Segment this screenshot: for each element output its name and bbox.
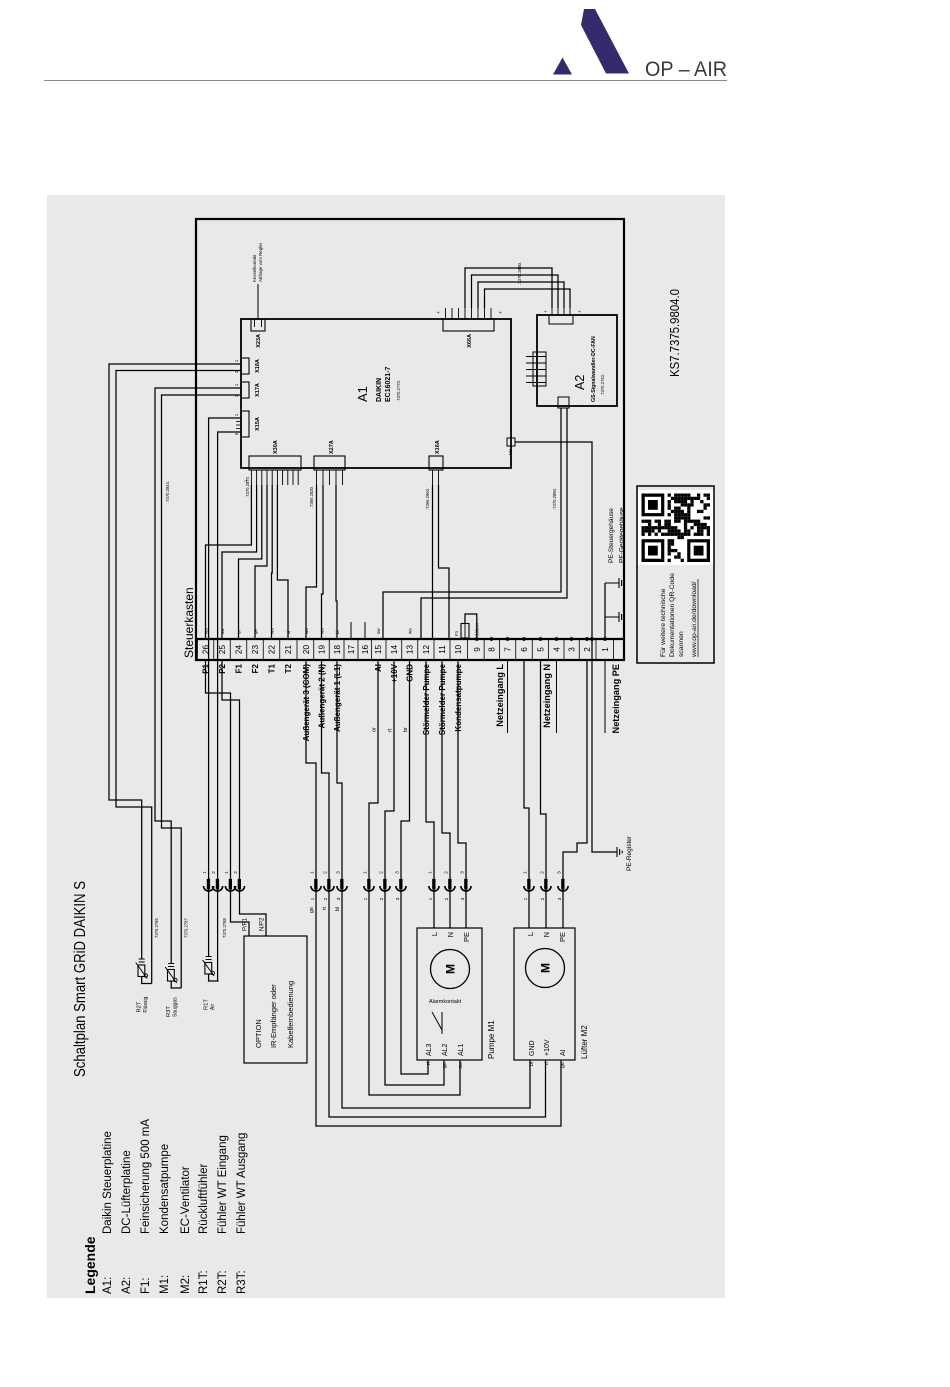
svg-text:.7370.2844.: .7370.2844. (165, 481, 170, 503)
svg-text:R1T: R1T (204, 999, 210, 1010)
gray schematic panel (47, 195, 725, 1298)
svg-text:Schaltplan Smart GRiD DAIKIN S: Schaltplan Smart GRiD DAIKIN S (72, 881, 89, 1077)
svg-text:8: 8 (488, 647, 497, 652)
svg-text:Steuerkasten: Steuerkasten (182, 587, 196, 658)
svg-text:Lüfter M2: Lüfter M2 (580, 1025, 589, 1059)
plug contact M2 L (527, 879, 530, 890)
sensor R3T (168, 966, 174, 968)
wire X18A pin3 to R2T (116, 371, 241, 984)
wires X27A to terminals 20,19,18 (306, 485, 317, 639)
mains input stub PE (604, 660, 606, 733)
plug contact OPTION N (238, 879, 241, 890)
wires Alarmkontakt AL1/AL2/AL3 to terminals 15,14,13 (369, 660, 460, 1095)
wire X17A pin1 to R3T (155, 388, 241, 964)
svg-text:sw: sw (376, 628, 381, 634)
svg-text:OPTION: OPTION (254, 1019, 263, 1048)
svg-text:Sauggas: Sauggas (173, 997, 179, 1017)
plug contact M2 ctrl 2 (327, 879, 330, 890)
svg-text:Netzeingang L: Netzeingang L (495, 664, 505, 727)
OP-AIR logo big stroke (581, 9, 629, 74)
svg-text:DAIKIN: DAIKIN (376, 378, 383, 402)
svg-text:www.op-air.de/download/: www.op-air.de/download/ (691, 581, 698, 658)
svg-text:2: 2 (443, 871, 449, 874)
svg-text:1: 1 (427, 871, 433, 874)
svg-text:N: N (446, 932, 455, 937)
svg-text:+: + (498, 311, 504, 314)
terminal strip inner rail (196, 638, 624, 640)
svg-text:GS-Signalwandler-DC-FAN: GS-Signalwandler-DC-FAN (591, 336, 597, 402)
svg-text:X18A: X18A (255, 359, 261, 373)
svg-text:2: 2 (583, 647, 592, 652)
wire OPTION N/P2 to terminal 25 (222, 660, 266, 936)
svg-text:14: 14 (390, 645, 399, 655)
svg-text:L: L (430, 932, 439, 936)
svg-text:Pumpe M1: Pumpe M1 (487, 1020, 496, 1059)
sensor R1T (206, 959, 212, 961)
svg-text:X27A: X27A (329, 440, 335, 454)
svg-text:ge: ge (309, 907, 315, 913)
svg-text:X15A: X15A (255, 417, 261, 431)
svg-text:.7370.2770.: .7370.2770. (396, 380, 401, 402)
svg-text:Abfrage vom Regler: Abfrage vom Regler (258, 242, 263, 282)
svg-text:Daikin Steuerplatine: Daikin Steuerplatine (102, 1131, 114, 1234)
svg-text:3: 3 (557, 897, 563, 900)
svg-text:AL2: AL2 (442, 1043, 449, 1056)
svg-text:M2:: M2: (180, 1275, 192, 1294)
wires X16A to terminals 12,11 (432, 485, 434, 639)
connector X16A (429, 456, 443, 470)
svg-text:15: 15 (374, 645, 383, 655)
svg-text:Dokumentationen QR-Code: Dokumentationen QR-Code (669, 573, 676, 657)
svg-text:.7366.2830.: .7366.2830. (309, 486, 314, 508)
svg-text:PE: PE (558, 932, 567, 942)
svg-text:rt: rt (388, 728, 394, 732)
svg-text:2: 2 (378, 871, 384, 874)
svg-text:Legende: Legende (82, 1236, 98, 1294)
svg-text:bl: bl (335, 907, 341, 911)
svg-text:sw: sw (458, 1062, 464, 1069)
svg-text:1: 1 (601, 647, 610, 652)
svg-text:7370.2786: 7370.2786 (154, 918, 159, 938)
svg-text:22: 22 (268, 645, 277, 655)
wires M2 L/N/PE to mains terminals (524, 660, 529, 928)
terminal strip cell dividers (197, 639, 199, 660)
wire to Kesselkontakt note (257, 284, 259, 319)
svg-text:+: + (543, 310, 548, 313)
svg-text:3: 3 (568, 647, 577, 652)
svg-text:Feinsicherung 500 mA: Feinsicherung 500 mA (140, 1119, 152, 1234)
svg-text:rt: rt (322, 907, 328, 911)
svg-text:Rückluftfühler: Rückluftfühler (198, 1164, 210, 1234)
motor M2 (526, 949, 565, 988)
svg-text:20: 20 (302, 645, 311, 655)
svg-text:rt: rt (426, 1062, 432, 1066)
svg-text:1: 1 (309, 871, 315, 874)
svg-text:Für weitere technische: Für weitere technische (660, 588, 667, 657)
plug contact OPTION P (229, 879, 232, 890)
svg-text:.7370.2870.: .7370.2870. (245, 476, 250, 498)
A2 top connector (533, 352, 546, 386)
svg-text:N: N (542, 932, 551, 937)
svg-text:F1: F1 (454, 630, 459, 636)
svg-text:Kabelfernbedienung: Kabelfernbedienung (286, 981, 295, 1048)
svg-text:PE: PE (462, 932, 471, 942)
svg-text:13: 13 (406, 645, 415, 655)
connector X27A (314, 456, 345, 470)
NC contact on A1 (507, 438, 515, 446)
svg-text:21: 21 (284, 645, 293, 655)
plug contact M1 N (448, 879, 451, 890)
connector X18A (241, 358, 249, 374)
svg-text:.7370.2740.: .7370.2740. (600, 374, 605, 396)
svg-text:A2: A2 (573, 375, 587, 390)
header rule (44, 80, 727, 82)
ground PE-Geraetegehaeuse (619, 578, 624, 588)
plug contact R1T-1 (207, 879, 210, 890)
svg-text:A2:: A2: (121, 1277, 133, 1294)
svg-text:R2T:: R2T: (217, 1270, 229, 1294)
svg-text:R3T: R3T (166, 1006, 172, 1017)
svg-text:3: 3 (459, 871, 465, 874)
info box with QR code (637, 486, 714, 663)
svg-text:Fühler WT Ausgang: Fühler WT Ausgang (236, 1133, 248, 1234)
svg-text:br: br (403, 727, 409, 732)
svg-text:3: 3 (394, 871, 400, 874)
svg-text:F1: F1 (235, 663, 244, 673)
svg-text:X17A: X17A (255, 383, 261, 397)
svg-text:17: 17 (347, 645, 356, 655)
plug contact M2 ctrl 1 (314, 879, 317, 890)
svg-text:23: 23 (251, 645, 260, 655)
svg-text:3: 3 (460, 897, 466, 900)
svg-text:PE-Gerätegehäuse: PE-Gerätegehäuse (619, 507, 626, 563)
svg-text:4: 4 (553, 647, 562, 652)
svg-text:6: 6 (520, 647, 529, 652)
A2 left connector (558, 397, 569, 408)
svg-text:1: 1 (428, 897, 434, 900)
svg-text:18: 18 (333, 645, 342, 655)
A1 Daikin control board (241, 319, 511, 468)
svg-text:X23A: X23A (256, 334, 262, 348)
A2 output wires to strip (383, 408, 561, 639)
svg-text:AL1: AL1 (458, 1043, 465, 1056)
wires X30A to terminals P1..T2 (206, 485, 252, 639)
connector X30A (249, 456, 301, 470)
svg-text:.7366.2960.: .7366.2960. (425, 488, 430, 510)
svg-text:IR-Empfänger oder: IR-Empfänger oder (269, 984, 278, 1048)
mains input stub N (556, 660, 558, 733)
connector X66A (443, 319, 494, 331)
OP-AIR logo small triangle (553, 58, 572, 75)
svg-text:Air: Air (210, 1004, 216, 1010)
svg-text:3: 3 (395, 897, 401, 900)
svg-text:or: or (372, 727, 378, 732)
svg-text:2: 2 (323, 897, 329, 900)
svg-text:Netzeingang N: Netzeingang N (542, 664, 552, 728)
svg-text:N/P2: N/P2 (260, 917, 266, 931)
svg-text:500mA: 500mA (475, 623, 480, 636)
svg-text:F2: F2 (251, 663, 260, 673)
svg-text:Alarmkontakt: Alarmkontakt (429, 999, 462, 1005)
svg-text:ge: ge (442, 1062, 448, 1068)
svg-text:ws: ws (408, 628, 413, 634)
plug contact AL path 3 (399, 879, 402, 890)
svg-text:+: + (436, 311, 442, 314)
svg-text:A1: A1 (355, 386, 370, 402)
svg-text:EC16021-7: EC16021-7 (385, 366, 392, 402)
svg-text:2: 2 (539, 871, 545, 874)
svg-text:T1: T1 (268, 663, 277, 673)
svg-text:GND: GND (529, 1040, 536, 1056)
svg-text:2: 2 (540, 897, 546, 900)
OPTION box (244, 936, 307, 1063)
stub terminal 16 (364, 622, 366, 639)
svg-text:7370.2787: 7370.2787 (184, 918, 189, 938)
sensor R2T (139, 961, 145, 963)
wire NC to strip / PE-Register (515, 442, 617, 852)
A2 right connector (549, 315, 573, 324)
svg-text:P/P1: P/P1 (243, 917, 249, 931)
svg-text:R3T:: R3T: (236, 1270, 248, 1294)
svg-text:12: 12 (422, 645, 431, 655)
wires M2 GND/+10V/AI to terminals 18,19,20 (306, 660, 561, 1126)
plug contact M2 N (544, 879, 547, 890)
connector X23A (251, 319, 265, 331)
svg-text:11: 11 (438, 645, 447, 654)
svg-text:1: 1 (522, 871, 528, 874)
svg-text:19: 19 (318, 645, 327, 655)
svg-text:M1:: M1: (159, 1275, 171, 1294)
wire X17A pin3 to R3T (162, 395, 242, 988)
svg-text:KS7.7375.9804.0: KS7.7375.9804.0 (667, 289, 682, 377)
svg-text:24: 24 (235, 645, 244, 655)
Steuerkasten enclosure box (196, 219, 624, 660)
svg-text:F1:: F1: (140, 1277, 152, 1294)
svg-text:Kesselkontakt: Kesselkontakt (252, 254, 257, 282)
svg-text:25: 25 (218, 645, 227, 655)
Alarmkontakt switch (441, 1012, 443, 1034)
svg-text:1: 1 (523, 897, 529, 900)
svg-text:2: 2 (379, 897, 385, 900)
A2 signal converter box (537, 315, 617, 406)
mains input stub L (507, 660, 509, 733)
plug contact AL path 1 (367, 879, 370, 890)
plug contact M2 PE (561, 879, 564, 890)
svg-text:.7370.2890.: .7370.2890. (552, 488, 557, 510)
fuse F1 between terminals 10 and 9 (461, 624, 469, 639)
PE wire from terminal 1 (604, 583, 606, 639)
junction dots mains terminals (506, 637, 510, 641)
svg-text:16: 16 (361, 645, 370, 655)
svg-text:PE-Register: PE-Register (626, 835, 633, 871)
svg-text:A1:: A1: (102, 1277, 114, 1294)
QR code (638, 490, 713, 565)
svg-text:R1T:: R1T: (198, 1270, 210, 1294)
wires M1 L/N/PE to terminals 12,11,10 (426, 660, 434, 928)
wire X15A pin1 to R1T (209, 418, 241, 957)
svg-text:Flüssig: Flüssig (143, 996, 149, 1012)
wire X18A pin1 to R2T (109, 364, 241, 959)
plug contact M1 L (432, 879, 435, 890)
svg-text:1: 1 (363, 897, 369, 900)
svg-text:7370.2788: 7370.2788 (222, 918, 227, 938)
svg-text:X66A: X66A (467, 334, 473, 348)
M2 Luefter box (514, 928, 575, 1060)
svg-text:2: 2 (444, 897, 450, 900)
svg-text:7: 7 (504, 647, 513, 652)
svg-text:PE-Steuergehäuse: PE-Steuergehäuse (608, 508, 615, 563)
svg-text:AI: AI (560, 1049, 567, 1056)
svg-text:OP – AIR: OP – AIR (645, 58, 727, 81)
svg-text:2: 2 (322, 871, 328, 874)
stub terminal 17 (350, 622, 352, 639)
connector X15A (241, 411, 249, 437)
svg-text:scannen: scannen (678, 631, 685, 657)
plug contact M1 PE (464, 879, 467, 890)
ground PE-Steuergehaeuse (619, 612, 624, 622)
motor M1 (431, 950, 470, 989)
svg-text:3: 3 (336, 897, 342, 900)
PE-Register ground (617, 847, 622, 857)
svg-text:EC-Ventilator: EC-Ventilator (180, 1166, 192, 1234)
svg-text:NC: NC (508, 449, 513, 455)
M1 Kondensatpumpe box (417, 928, 482, 1060)
svg-text:3: 3 (335, 871, 341, 874)
svg-text:L: L (526, 932, 535, 936)
svg-text:+10V: +10V (544, 1039, 551, 1056)
svg-text:3: 3 (556, 871, 562, 874)
plug contact R1T-2 (216, 879, 219, 890)
wire bundle X66A to A2 (465, 268, 552, 308)
plug contact AL path 2 (383, 879, 386, 890)
svg-text:1: 1 (310, 897, 316, 900)
svg-text:M: M (539, 963, 553, 973)
svg-text:.7370.2880.: .7370.2880. (517, 262, 522, 285)
svg-text:+: + (577, 310, 582, 313)
svg-text:5: 5 (537, 647, 546, 652)
svg-text:9: 9 (473, 647, 482, 652)
svg-text:1: 1 (362, 871, 368, 874)
svg-text:Netzeingang PE: Netzeingang PE (611, 664, 621, 733)
wire X15A pin5 to R1T (218, 432, 241, 981)
svg-text:Fühler WT Eingang: Fühler WT Eingang (217, 1135, 229, 1234)
wire OPTION P/P1 to terminal 26 (206, 660, 250, 936)
svg-text:10: 10 (454, 645, 463, 655)
connector X17A (241, 382, 249, 398)
svg-text:M: M (444, 964, 458, 974)
svg-text:DC-Lüfterplatine: DC-Lüfterplatine (121, 1150, 133, 1234)
svg-text:T2: T2 (284, 663, 293, 673)
plug contact M2 ctrl 3 (340, 879, 343, 890)
svg-text:Kondensatpumpe: Kondensatpumpe (159, 1144, 171, 1234)
svg-text:X30A: X30A (273, 440, 279, 454)
svg-text:AL3: AL3 (426, 1043, 433, 1056)
svg-text:X16A: X16A (435, 440, 441, 454)
svg-text:R2T: R2T (137, 1001, 143, 1012)
